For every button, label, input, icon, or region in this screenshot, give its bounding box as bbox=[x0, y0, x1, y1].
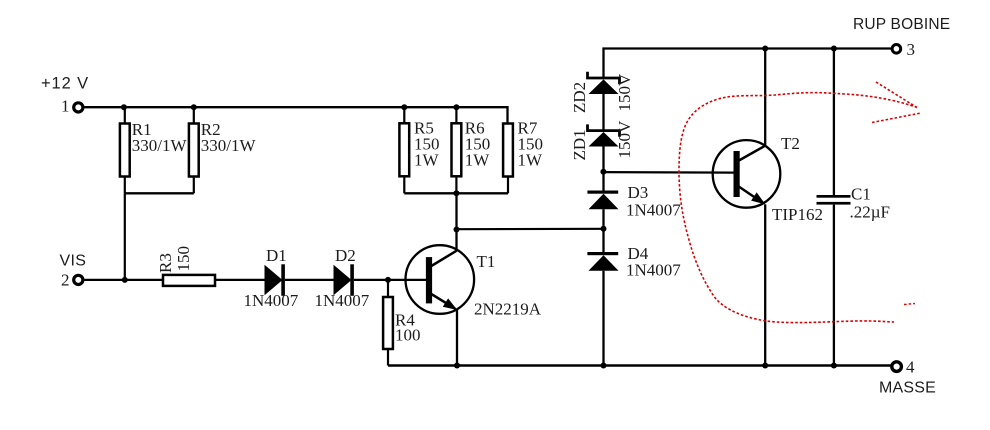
svg-text:2N2219A: 2N2219A bbox=[474, 300, 542, 319]
wire R1 bottom to VIS node bbox=[124, 193, 126, 280]
svg-text:1N4007: 1N4007 bbox=[315, 291, 370, 310]
junction VIS / R1 branch bbox=[122, 277, 128, 283]
resistor R7 bbox=[503, 124, 513, 194]
diode D2 bbox=[334, 264, 354, 296]
junction C1 top bbox=[831, 46, 837, 52]
wire D3 to D4 bbox=[602, 209, 604, 252]
annotation red dash bbox=[904, 304, 915, 305]
zener diode ZD1 bbox=[588, 124, 620, 146]
svg-text:C1: C1 bbox=[851, 185, 871, 204]
svg-text:3: 3 bbox=[907, 40, 916, 59]
resistor R2 bbox=[189, 107, 199, 193]
wire VIS to R3 bbox=[84, 279, 163, 281]
junction T1 emitter bottom bbox=[454, 363, 460, 369]
terminal 1 bbox=[74, 103, 83, 112]
resistor R5 bbox=[399, 107, 409, 193]
svg-text:RUP BOBINE: RUP BOBINE bbox=[853, 16, 950, 33]
svg-text:1W: 1W bbox=[465, 150, 491, 169]
junction T2 emitter bottom bbox=[762, 363, 768, 369]
resistor R3 bbox=[163, 275, 215, 286]
wire ZD1 to D3 bbox=[602, 147, 604, 191]
junction collector node bbox=[454, 227, 460, 233]
wire to T2 base bbox=[603, 171, 733, 174]
svg-text:VIS: VIS bbox=[60, 252, 87, 269]
junction T2 base node bbox=[600, 169, 606, 175]
svg-text:T1: T1 bbox=[477, 252, 496, 271]
annotation red arrowhead upper stroke bbox=[876, 82, 917, 108]
svg-text:1N4007: 1N4007 bbox=[244, 291, 299, 310]
svg-text:1: 1 bbox=[61, 97, 70, 116]
zener diode ZD2 bbox=[588, 72, 620, 94]
svg-text:330/1W: 330/1W bbox=[132, 136, 188, 155]
svg-text:1W: 1W bbox=[518, 150, 544, 169]
annotation red loop bbox=[679, 93, 917, 323]
junction R2 top bbox=[191, 104, 197, 110]
diode D4 bbox=[587, 252, 618, 271]
wire R5-R7 bottoms bbox=[404, 192, 508, 194]
wire D1 to D2 bbox=[285, 279, 334, 281]
svg-text:R3: R3 bbox=[156, 253, 175, 273]
svg-text:ZD2: ZD2 bbox=[570, 82, 589, 113]
junction C1 bottom bbox=[831, 363, 837, 369]
junction R1 top bbox=[121, 104, 127, 110]
wire R3 to D1 bbox=[215, 279, 265, 281]
wire T1 emitter down bbox=[456, 310, 458, 366]
wire R1-R2 bottoms bbox=[125, 192, 194, 194]
svg-text:1N4007: 1N4007 bbox=[626, 261, 681, 280]
wire ZD2 to ZD1 bbox=[602, 94, 604, 130]
svg-text:100: 100 bbox=[395, 326, 421, 345]
junction diode mid node bbox=[601, 226, 607, 232]
transistor T2 bbox=[713, 140, 781, 208]
resistor R1 bbox=[120, 107, 130, 193]
junction R6 bottom bbox=[453, 190, 459, 196]
wire +12V rail bbox=[84, 107, 507, 123]
svg-text:TIP162: TIP162 bbox=[772, 205, 823, 224]
svg-text:T2: T2 bbox=[781, 134, 800, 153]
junction T1 base / R4 bbox=[385, 277, 391, 283]
svg-text:ZD1: ZD1 bbox=[570, 129, 589, 160]
svg-text:150V: 150V bbox=[615, 120, 634, 159]
junction R5 top bbox=[401, 104, 407, 110]
svg-text:4: 4 bbox=[906, 358, 915, 377]
svg-text:1N4007: 1N4007 bbox=[626, 201, 681, 220]
svg-text:150V: 150V bbox=[615, 73, 634, 112]
wire D2 to T1 base bbox=[354, 279, 427, 281]
diode D1 bbox=[265, 264, 285, 296]
wire T1 collector up bbox=[455, 193, 457, 251]
terminal 2 bbox=[74, 275, 83, 284]
svg-text:2: 2 bbox=[61, 270, 70, 289]
svg-text:+12 V: +12 V bbox=[41, 75, 89, 93]
annotation red arrowhead lower stroke bbox=[872, 113, 921, 123]
svg-text:150: 150 bbox=[174, 246, 193, 272]
svg-text:D3: D3 bbox=[628, 183, 649, 202]
resistor R6 bbox=[452, 107, 462, 193]
wire T2 emitter down bbox=[764, 204, 766, 365]
wire RUP BOBINE rail bbox=[604, 49, 892, 78]
transistor T1 bbox=[406, 245, 475, 314]
terminal 3 bbox=[892, 45, 901, 54]
diode D3 bbox=[587, 191, 618, 210]
capacitor C1 bbox=[817, 49, 851, 366]
wire MASSE rail bbox=[388, 364, 892, 366]
wire collector to diode node bbox=[457, 228, 604, 231]
svg-text:330/1W: 330/1W bbox=[201, 136, 257, 155]
junction R6 top bbox=[453, 104, 459, 110]
junction T2 collector top bbox=[762, 46, 768, 52]
junction D4 bottom bbox=[601, 363, 607, 369]
svg-text:D1: D1 bbox=[266, 246, 287, 265]
svg-text:1W: 1W bbox=[414, 150, 440, 169]
svg-text:MASSE: MASSE bbox=[879, 380, 936, 397]
terminal 4 bbox=[892, 362, 902, 372]
svg-text:D2: D2 bbox=[335, 246, 356, 265]
resistor R4 bbox=[383, 280, 393, 366]
wire D4 to ground rail bbox=[602, 271, 604, 366]
wire T2 collector up bbox=[764, 49, 766, 146]
svg-text:.22µF: .22µF bbox=[850, 203, 891, 222]
